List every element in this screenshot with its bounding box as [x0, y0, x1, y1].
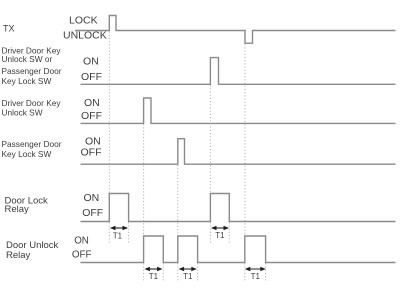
svg-text:LOCK: LOCK: [69, 15, 98, 27]
svg-text:Passenger Door: Passenger Door: [2, 66, 62, 76]
node guide D5 (TX unlock pulse edge): [244, 44, 246, 236]
svg-text:T1: T1: [183, 272, 193, 281]
svg-text:ON: ON: [83, 56, 99, 68]
svg-text:T1: T1: [251, 272, 261, 281]
wire TX signal waveform: [75, 16, 396, 44]
dimension arrow T1 (Door Unlock Relay pulse 2): [179, 267, 197, 281]
tick T1 bounds row5 pulse1: [108, 222, 110, 244]
svg-text:UNLOCK: UNLOCK: [63, 30, 107, 42]
wire row3 signal waveform: [81, 98, 396, 123]
svg-text:Key Lock SW: Key Lock SW: [2, 149, 52, 159]
wire row2 signal waveform: [81, 58, 396, 85]
svg-text:T1: T1: [113, 232, 123, 241]
svg-text:TX: TX: [3, 23, 15, 33]
svg-text:ON: ON: [84, 192, 100, 204]
tick T1 bounds row6 pulse2: [177, 263, 179, 281]
svg-text:OFF: OFF: [81, 147, 102, 159]
svg-text:OFF: OFF: [72, 250, 92, 261]
node guide D1 (TX lock pulse edge): [108, 32, 110, 194]
tick T1 bounds row6 pulse3: [244, 263, 246, 281]
dimension arrow T1 (Door Lock Relay pulse 2): [211, 226, 229, 240]
svg-text:Unlock SW: Unlock SW: [2, 108, 43, 118]
svg-text:ON: ON: [84, 97, 100, 109]
wire row4 signal waveform: [81, 139, 396, 165]
svg-text:Driver Door Key: Driver Door Key: [2, 98, 62, 108]
dimension arrow T1 (Door Unlock Relay pulse 3): [245, 267, 266, 281]
svg-text:OFF: OFF: [81, 110, 102, 122]
node guide D3 (Passenger Door Key Lock SW pulse edge): [177, 165, 179, 236]
svg-text:ON: ON: [74, 236, 89, 247]
svg-text:Key Lock SW: Key Lock SW: [2, 76, 52, 86]
node guide D4 (row2 SW pulse edge): [209, 85, 211, 193]
dimension arrow T1 (Door Unlock Relay pulse 1): [144, 267, 162, 281]
svg-text:T1: T1: [215, 231, 225, 240]
svg-text:Relay: Relay: [6, 250, 31, 261]
svg-text:T1: T1: [149, 272, 159, 281]
tick T1 bounds row5 pulse2: [209, 222, 211, 244]
node guide D2 (Driver Door Key Unlock SW pulse edge): [143, 124, 145, 236]
wire row6 Door Unlock Relay waveform: [81, 236, 396, 263]
svg-text:OFF: OFF: [81, 71, 102, 83]
wire row5 Door Lock Relay waveform: [81, 194, 396, 222]
svg-text:Unlock SW or: Unlock SW or: [2, 54, 53, 64]
svg-text:OFF: OFF: [82, 207, 103, 219]
svg-text:Passenger Door: Passenger Door: [2, 139, 62, 149]
svg-text:Relay: Relay: [5, 204, 30, 215]
dimension arrow T1 (Door Lock Relay pulse 1): [110, 226, 128, 241]
tick T1 bounds row6 pulse1: [143, 263, 145, 281]
